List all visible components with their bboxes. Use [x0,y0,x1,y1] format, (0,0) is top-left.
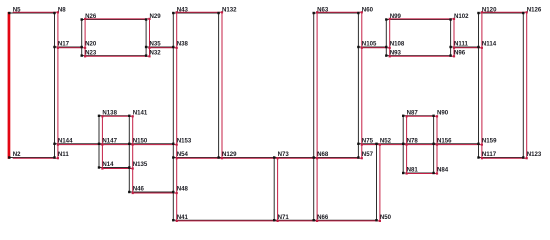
node N159 [477,138,497,146]
svg-text:N38: N38 [177,41,189,48]
svg-text:N14: N14 [102,161,114,168]
svg-text:N138: N138 [102,110,117,117]
svg-text:N50: N50 [380,214,392,221]
svg-text:N96: N96 [454,49,466,56]
svg-text:N35: N35 [150,41,162,48]
node N156 [432,138,452,146]
wire N138-N141 [99,115,133,118]
node N153 [172,138,192,146]
svg-text:N90: N90 [437,110,449,117]
wire N105-N108 [358,46,389,49]
wire N68-N66 [314,158,317,221]
wire N38-N153 [173,47,176,145]
node N120 [477,7,497,15]
svg-text:N52: N52 [380,138,392,145]
wire N135-N46 [129,168,132,194]
svg-text:N75: N75 [362,138,374,145]
node N17 [53,41,69,49]
node N63 [313,7,329,15]
wire N73-N68 [274,157,317,160]
wire N102-N111 [451,19,454,48]
wire N87-N78 [403,116,406,145]
node N114 [477,41,496,49]
node N84 [432,167,448,175]
wire N35-N32 [146,47,149,56]
svg-text:N156: N156 [437,138,452,145]
wire N141-N150 [129,116,132,145]
wire N73-N71 [274,158,277,221]
svg-text:N93: N93 [390,49,402,56]
wire N8-N17 [55,12,58,48]
node N105 [357,41,377,49]
svg-text:N23: N23 [85,49,97,56]
svg-text:N54: N54 [177,151,189,158]
node N111 [449,41,468,49]
node N32 [145,49,161,57]
svg-text:N150: N150 [133,138,148,145]
svg-text:N71: N71 [278,214,290,221]
wire N90-N156 [434,116,437,145]
wire N105-N75 [358,47,361,145]
node N87 [402,110,418,118]
node N29 [145,13,161,20]
node N141 [128,110,148,118]
wire N41-N71 [173,219,277,222]
node N46 [128,186,144,194]
svg-text:N84: N84 [437,167,449,174]
wire N129-N73 [219,157,278,160]
wire N156-N159 [434,143,482,146]
svg-text:N144: N144 [58,138,73,145]
wire N29-N35 [146,19,149,48]
svg-text:N123: N123 [527,151,542,158]
wire N63-N68 [314,12,317,158]
wire N17-N144 [55,47,58,145]
wire N99-N108 [386,19,389,48]
node N147 [98,138,118,146]
wire N147-N14 [99,144,102,169]
wire N75-N52 [358,143,380,146]
svg-text:N81: N81 [407,167,419,174]
svg-text:N2: N2 [13,151,21,158]
node N5 [8,7,21,15]
wire N52-N78 [377,143,407,146]
wire N5-N8 [9,11,58,14]
wire N2-N11 [9,157,58,160]
wire N144-N11 [55,144,58,158]
node N126 [522,7,542,15]
node N35 [145,41,161,49]
svg-text:N99: N99 [390,13,402,20]
svg-text:N114: N114 [482,41,497,48]
svg-text:N105: N105 [362,41,377,48]
wire N54-N129 [173,157,222,160]
svg-text:N43: N43 [177,7,189,14]
node N150 [128,138,148,146]
node N81 [402,167,418,175]
svg-text:N63: N63 [317,7,329,14]
wire N111-N114 [451,46,482,49]
wire N117-N123 [479,157,527,160]
wire N48-N41 [173,192,176,221]
svg-text:N108: N108 [390,41,405,48]
wire N46-N48 [129,192,176,193]
svg-text:N8: N8 [58,7,66,14]
wire N26-N29 [82,18,150,21]
node N26 [81,13,97,20]
wire N23-N32 [82,55,150,58]
svg-text:N29: N29 [150,13,162,20]
svg-text:N132: N132 [222,7,237,14]
node N23 [81,49,97,57]
node N38 [172,41,188,49]
node N11 [53,151,69,159]
node N73 [273,151,289,159]
svg-text:N17: N17 [58,41,70,48]
wire N52-N50 [377,144,380,221]
wire N150-N153 [129,143,176,146]
wire N153-N54 [173,144,176,158]
node N8 [53,7,66,15]
node N43 [172,7,188,15]
svg-text:N26: N26 [85,13,97,20]
svg-text:N60: N60 [362,7,374,14]
wire N159-N117 [479,144,482,158]
svg-text:N11: N11 [58,151,69,158]
svg-text:N111: N111 [454,41,469,48]
node N90 [432,110,448,118]
wire N87-N90 [403,115,437,118]
node N78 [402,138,418,146]
node N60 [357,7,373,15]
node N68 [313,151,329,159]
node N108 [385,41,405,49]
wire N78-N81 [403,144,406,174]
node N71 [273,214,289,222]
node N123 [522,151,542,159]
wire N144-N147 [55,143,103,146]
node N129 [217,151,237,159]
node N14 [98,161,114,169]
node N138 [98,110,118,118]
svg-text:N141: N141 [133,110,148,117]
wire N17-N20 [55,46,86,49]
node N2 [8,151,21,159]
node N144 [53,138,73,146]
svg-text:N32: N32 [150,49,162,56]
svg-text:N66: N66 [317,214,329,221]
node N132 [217,7,237,15]
wire N132-N129 [219,12,222,158]
wire N114-N159 [479,47,482,145]
svg-text:N41: N41 [177,214,189,221]
wire N126-N123 [523,12,526,158]
wire N63-N60 [314,11,362,14]
node N117 [477,151,496,159]
svg-text:N126: N126 [527,7,542,14]
node N52 [375,138,391,146]
svg-text:N117: N117 [482,151,497,158]
wire N14-N135 [99,168,133,169]
node N135 [128,161,148,169]
svg-text:N159: N159 [482,138,497,145]
svg-text:N120: N120 [482,7,497,14]
svg-text:N68: N68 [317,151,329,158]
svg-text:N20: N20 [85,41,97,48]
svg-text:N102: N102 [454,13,469,20]
svg-text:N153: N153 [177,138,192,145]
svg-text:N87: N87 [407,110,419,117]
wire N150-N135 [129,144,132,169]
node N50 [375,214,391,222]
wire N111-N96 [451,47,454,56]
wire N5-N2 highlighted red bus [8,12,11,159]
wire N120-N114 [479,12,482,48]
wire N81-N84 [403,172,437,175]
node N96 [449,49,465,57]
wire N43-N38 [173,12,176,48]
node N75 [357,138,373,146]
svg-text:N5: N5 [13,7,21,14]
wire N20-N23 [82,47,85,56]
wire N35-N38 [146,46,177,49]
wire N138-N147 [99,116,102,145]
wire N26-N20 [82,19,85,48]
node N66 [313,214,329,222]
wire N71-N66 [274,219,317,222]
svg-text:N73: N73 [278,151,290,158]
svg-text:N129: N129 [222,151,237,158]
svg-text:N48: N48 [177,186,189,193]
node N93 [385,49,401,57]
wire N60-N105 [358,12,361,48]
wire N120-N126 [479,11,527,14]
svg-text:N57: N57 [362,151,374,158]
wire N147-N150 [99,143,133,146]
node N102 [449,13,469,20]
svg-text:N78: N78 [407,138,419,145]
node N20 [81,41,97,49]
node N48 [172,186,188,194]
wire N99-N102 [386,18,454,21]
node N99 [385,13,401,20]
wire N156-N84 [434,144,437,174]
node N57 [357,151,373,159]
wire N78-N156 [403,143,437,146]
wire N43-N132 [173,11,222,14]
node N41 [172,214,188,222]
wire N54-N48 [173,158,176,194]
svg-text:N147: N147 [102,138,117,145]
wire N93-N96 [386,55,454,58]
svg-text:N46: N46 [133,186,145,193]
wire N66-N50 [314,219,380,222]
wire N108-N93 [386,47,389,56]
wire N68-N57 [314,157,362,160]
node N54 [172,151,188,159]
svg-text:N135: N135 [133,161,148,168]
wire N75-N57 [358,144,361,158]
